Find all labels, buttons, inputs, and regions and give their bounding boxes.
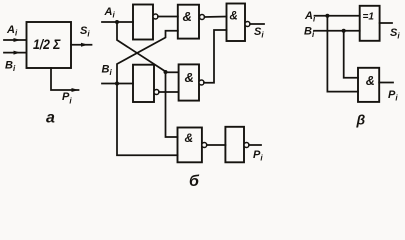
svg-text:1/2 Σ: 1/2 Σ	[33, 36, 61, 52]
wire A_i input (fig. b)	[102, 21, 133, 23]
svg-text:&: &	[230, 11, 238, 23]
wire bus to gate U5 input (fig. b)	[166, 71, 179, 73]
svg-text:Bi: Bi	[102, 64, 113, 78]
inverter U3 (fig. b)	[133, 65, 159, 102]
junction dot B (fig. c)	[342, 29, 346, 33]
wire B down to AND (fig. c)	[344, 31, 358, 78]
wire P_i output arrow (fig. a)	[51, 68, 79, 92]
wire P_i output (fig. b)	[249, 144, 261, 146]
half-adder block U1 "1/2 sigma" (fig. a)	[27, 22, 72, 68]
wire P_i output (fig. c)	[379, 82, 393, 84]
svg-text:Bi: Bi	[304, 26, 315, 40]
wire A_i input arrow (fig. a)	[4, 38, 26, 42]
wire A down to AND (fig. c)	[327, 16, 358, 92]
nand gate U5 (fig. b)	[179, 64, 204, 100]
wire U5 output to U7 (fig. b)	[204, 30, 227, 83]
junction dot on A_i (fig. b)	[115, 20, 119, 24]
wire U2 output to U4 (fig. b)	[158, 16, 178, 18]
wire S_i output (fig. c)	[380, 22, 392, 24]
wire A_i input (fig. c)	[315, 15, 360, 17]
junction dot A (fig. c)	[325, 14, 329, 18]
svg-text:Si: Si	[390, 27, 400, 41]
svg-text:β: β	[356, 112, 366, 128]
svg-text:&: &	[185, 70, 194, 85]
wire S_i output (fig. b)	[250, 23, 264, 25]
nand gate U6 (fig. b)	[178, 128, 207, 163]
svg-text:&: &	[185, 131, 194, 145]
wire U6 output to U8 (fig. b)	[207, 144, 226, 146]
and block U10 (fig. c)	[358, 68, 379, 102]
svg-text:Pi: Pi	[388, 89, 398, 103]
wire A diagonal to bus (fig. b)	[117, 22, 166, 72]
svg-text:Pi: Pi	[253, 149, 263, 163]
svg-text:Bi: Bi	[5, 60, 16, 74]
svg-text:&: &	[183, 9, 192, 24]
svg-text:Ai: Ai	[304, 10, 316, 24]
wire B diagonal up to gate U4 (fig. b)	[117, 31, 178, 84]
inverter U8 (fig. b)	[225, 127, 249, 163]
xor block U9 "=1" (fig. c)	[360, 6, 380, 41]
svg-text:Pi: Pi	[62, 91, 72, 106]
svg-text:&: &	[366, 74, 375, 88]
wire U4 output to U7 (fig. b)	[205, 16, 227, 19]
nand gate U4 (fig. b)	[178, 5, 205, 39]
wire B_i input arrow (fig. a)	[4, 51, 26, 55]
wire U3 output to U5 (fig. b)	[159, 91, 179, 93]
svg-text:=1: =1	[363, 12, 375, 23]
wire bus vertical to gate U6 (fig. b)	[166, 72, 178, 137]
svg-text:б: б	[189, 173, 200, 190]
nand gate U7 (fig. b)	[227, 4, 251, 42]
svg-text:а: а	[46, 109, 55, 126]
wire B_i input (fig. b)	[102, 83, 133, 85]
svg-text:Ai: Ai	[6, 24, 18, 38]
svg-text:Si: Si	[80, 25, 90, 39]
wire B_i input (fig. c)	[314, 30, 360, 32]
junction dot on bus (fig. b)	[164, 70, 168, 74]
wire S_i output arrow (fig. a)	[71, 43, 92, 47]
svg-text:Si: Si	[254, 26, 264, 40]
junction dot on B_i (fig. b)	[115, 82, 119, 86]
svg-text:Ai: Ai	[104, 6, 116, 20]
inverter U2 (fig. b)	[133, 5, 158, 40]
wire B down to gate U6 (fig. b)	[117, 84, 178, 156]
